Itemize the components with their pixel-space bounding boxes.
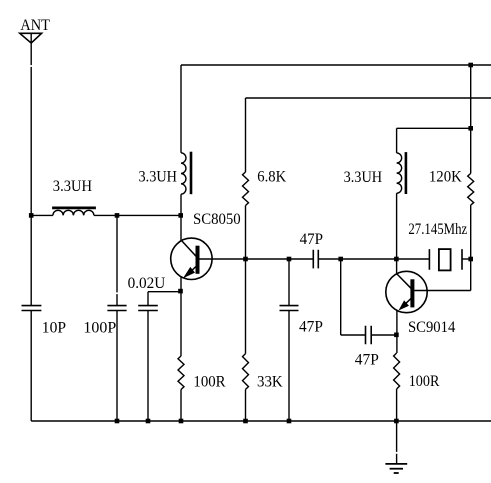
svg-text:100P: 100P	[83, 319, 116, 336]
svg-text:SC9014: SC9014	[408, 319, 455, 336]
svg-text:6.8K: 6.8K	[257, 169, 286, 186]
svg-text:3.3UH: 3.3UH	[344, 169, 383, 186]
svg-text:27.145Mhz: 27.145Mhz	[408, 221, 467, 238]
svg-text:47P: 47P	[355, 351, 379, 368]
svg-text:0.02U: 0.02U	[128, 275, 166, 292]
svg-text:3.3UH: 3.3UH	[53, 178, 93, 195]
svg-text:10P: 10P	[42, 319, 66, 336]
svg-text:47P: 47P	[299, 319, 323, 336]
svg-text:100R: 100R	[193, 373, 226, 390]
svg-text:47P: 47P	[300, 231, 323, 248]
svg-text:ANT: ANT	[20, 17, 50, 34]
svg-text:120K: 120K	[429, 168, 462, 185]
svg-text:33K: 33K	[257, 374, 283, 391]
svg-text:3.3UH: 3.3UH	[139, 169, 178, 186]
svg-text:SC8050: SC8050	[193, 211, 241, 228]
svg-text:100R: 100R	[409, 373, 440, 390]
